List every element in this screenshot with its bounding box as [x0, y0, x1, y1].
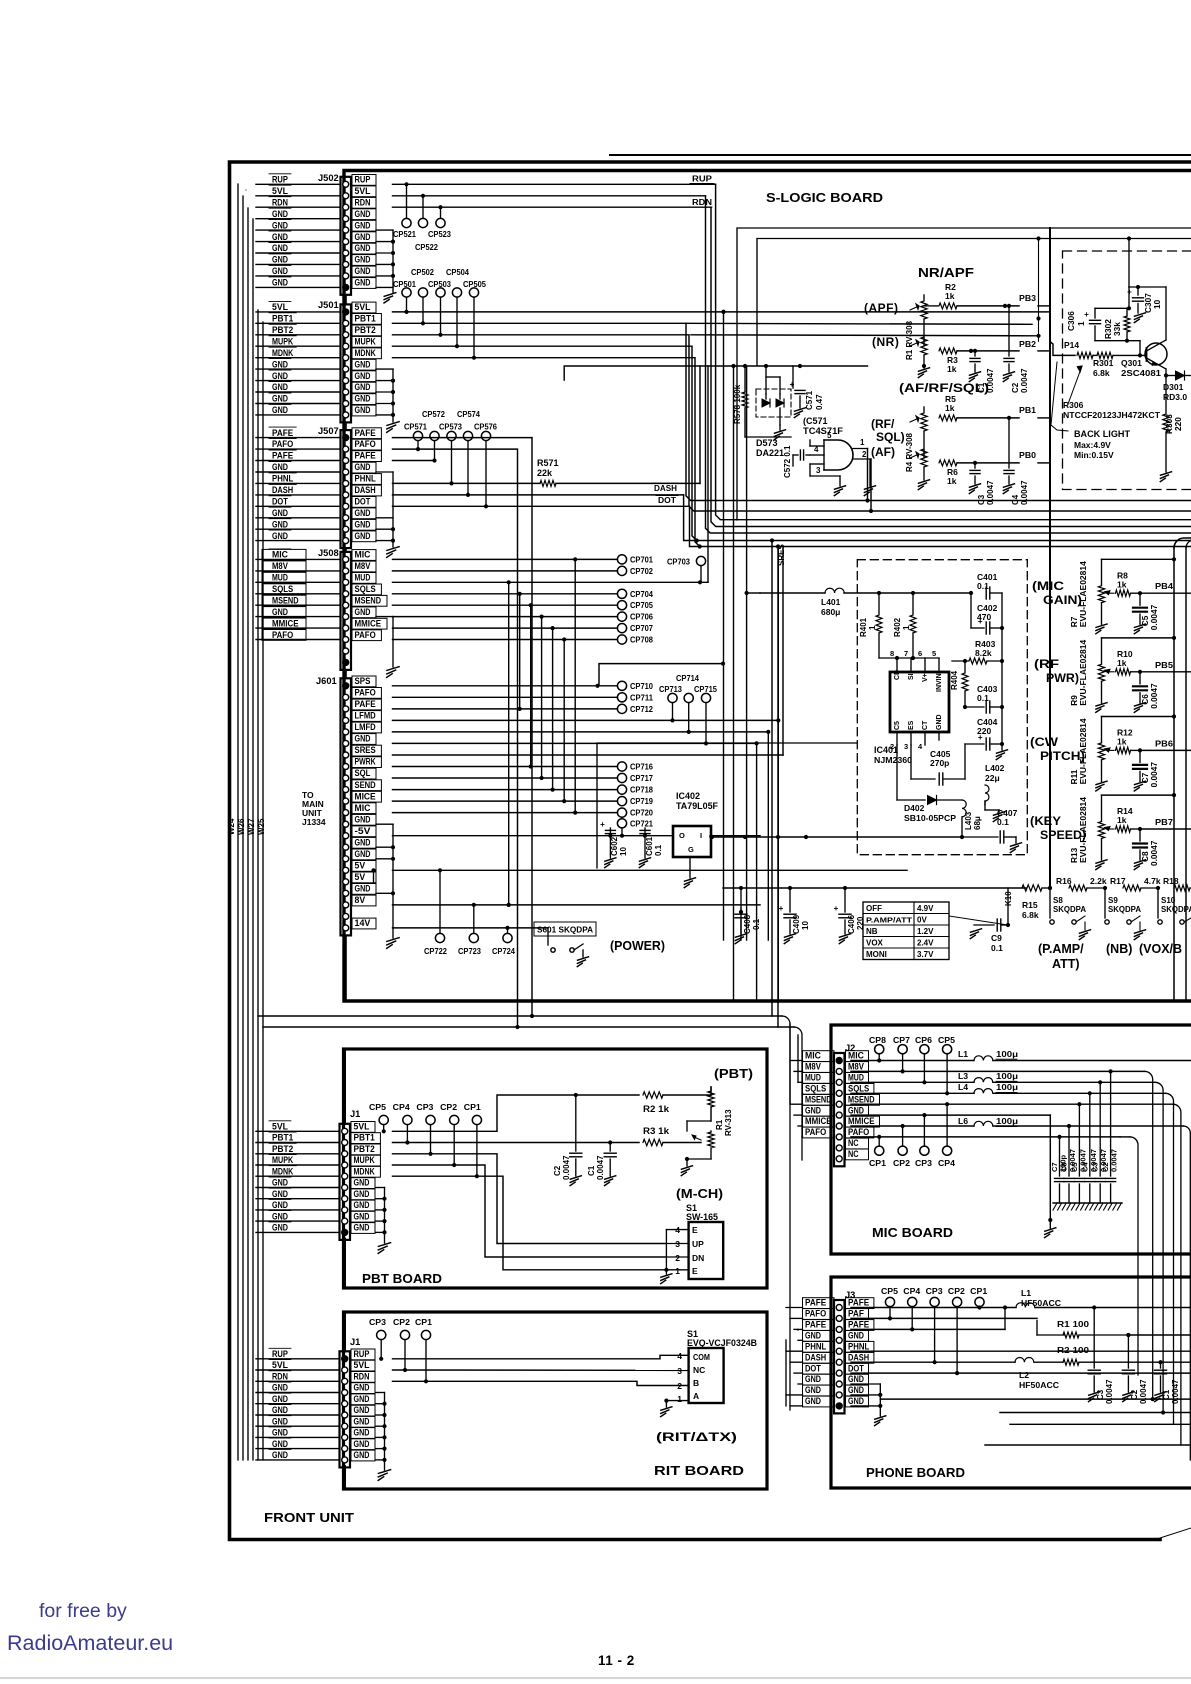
wire DASH [393, 495, 1191, 1016]
svg-text:GND: GND [354, 1200, 370, 1210]
D301 label [1163, 382, 1187, 402]
svg-text:(AF/RF/SQL): (AF/RF/SQL) [899, 381, 989, 395]
MIC testpoint CP6 [920, 1045, 929, 1085]
svg-text:GND: GND [848, 1374, 864, 1384]
wire top feed y366 [564, 364, 867, 380]
svg-text:+: + [1084, 310, 1089, 319]
gate pin numbers [814, 431, 867, 475]
svg-text:CP707: CP707 [630, 623, 653, 633]
switch S601 SKQDPA [534, 922, 596, 967]
wire MIC601 row [393, 812, 618, 814]
dashed box IC401 [857, 560, 1027, 855]
svg-text:CP719: CP719 [630, 796, 653, 806]
resistor R2 100 phone [1057, 1345, 1191, 1365]
svg-text:SW-165: SW-165 [686, 1212, 718, 1222]
svg-text:C1: C1 [587, 1165, 596, 1176]
svg-text:DASH: DASH [805, 1352, 826, 1362]
S1 SW-165 labels [686, 1203, 718, 1222]
wire L402 gnd [985, 802, 1005, 822]
svg-text:100μ: 100μ [996, 1082, 1018, 1092]
svg-text:GND: GND [272, 1200, 288, 1210]
wire C404 ground [1001, 744, 1003, 750]
svg-text:PAFO: PAFO [805, 1127, 826, 1137]
svg-text:W24: W24 [227, 818, 236, 835]
svg-text:GND: GND [354, 1428, 370, 1438]
testpoint PBT CP2 [450, 1115, 459, 1167]
wire RUP to S1 [393, 1355, 689, 1359]
connector J508 [256, 549, 387, 670]
resistor R2 1k PBT [643, 1092, 711, 1114]
svg-text:0.0047: 0.0047 [1149, 840, 1159, 866]
wire KEY row [710, 835, 962, 839]
svg-text:R11: R11 [1069, 769, 1079, 784]
grid vertical x541.6 [540, 615, 544, 781]
inductor L1 phone [851, 1303, 1191, 1310]
svg-text:PAF: PAF [848, 1309, 864, 1319]
svg-text:W26: W26 [237, 818, 246, 835]
J601 label [316, 676, 337, 686]
svg-text:CP715: CP715 [694, 684, 717, 694]
switch S9 SKQDPA [1105, 888, 1146, 940]
svg-text:J1: J1 [350, 1109, 360, 1119]
DOT tag [656, 495, 678, 505]
svg-text:I: I [700, 831, 702, 840]
svg-text:EVQ-VCJF0324B: EVQ-VCJF0324B [687, 1338, 757, 1348]
testpoint CP718 [617, 785, 653, 795]
wire MICE row [393, 800, 618, 802]
testpoint CP715 [701, 693, 710, 745]
svg-text:1k: 1k [1117, 579, 1127, 589]
svg-text:S8: S8 [1053, 896, 1063, 905]
svg-text:0.0047: 0.0047 [1110, 1149, 1119, 1172]
svg-text:E: E [692, 1225, 698, 1235]
svg-text:+: + [600, 820, 605, 829]
svg-text:CP3: CP3 [915, 1158, 932, 1168]
RIT board outline [344, 1312, 768, 1489]
svg-text:NB: NB [866, 927, 878, 936]
inductor L401 680u [760, 588, 971, 617]
svg-text:GND: GND [355, 371, 371, 381]
svg-text:L402: L402 [985, 763, 1005, 773]
svg-text:GND: GND [848, 1331, 864, 1341]
svg-text:(NB): (NB) [1106, 942, 1132, 956]
grid vertical x575.2 [573, 557, 577, 814]
svg-text:10: 10 [801, 921, 810, 930]
J502 gnd bundle [376, 230, 396, 303]
J502 label [318, 173, 339, 183]
capacitor C1 phone [1155, 1362, 1181, 1404]
APF bracket label [864, 301, 899, 315]
RIT bracket label [656, 1430, 737, 1444]
svg-text:GND: GND [355, 607, 371, 617]
stub CP572 [432, 441, 436, 463]
wire S1 pin1 gnd [661, 1399, 689, 1417]
svg-text:3.7V: 3.7V [917, 950, 934, 959]
svg-text:5VL: 5VL [272, 1122, 288, 1132]
resistor R571 22k [540, 480, 700, 486]
testpoint CP711 [617, 692, 653, 702]
W24 label [227, 818, 236, 835]
svg-text:C571: C571 [805, 390, 814, 410]
svg-text:S601 SKQDPA: S601 SKQDPA [537, 925, 593, 935]
svg-text:L4: L4 [958, 1082, 968, 1092]
switch S10 SKQDPA [1158, 888, 1191, 924]
bus vertical x1129 [1128, 239, 1130, 288]
node RDN tag [690, 197, 712, 207]
svg-text:10: 10 [619, 847, 628, 856]
bus vertical x768.3 [767, 732, 769, 940]
svg-text:0.1: 0.1 [977, 693, 989, 703]
svg-text:GND: GND [355, 232, 371, 242]
capacitor C9 0.1 [970, 919, 1010, 953]
svg-text:(AF): (AF) [871, 445, 895, 459]
svg-text:J601: J601 [316, 676, 337, 686]
RF PWR bracket [1034, 659, 1079, 685]
svg-text:PHNL: PHNL [355, 474, 377, 484]
capacitor C406 220 [834, 888, 865, 944]
svg-text:R17: R17 [1110, 876, 1126, 886]
wire PBT PBT1 [393, 1140, 640, 1144]
svg-text:R4 RV-308: R4 RV-308 [905, 432, 914, 472]
capacitor bank C7 C8 C5 C4 C3 C2 [1050, 1071, 1119, 1203]
wire PWRK row [393, 766, 618, 768]
svg-text:GND: GND [355, 837, 371, 847]
svg-text:DN: DN [692, 1253, 704, 1263]
R306 NTC label [1063, 400, 1161, 420]
svg-text:100μ: 100μ [996, 1116, 1018, 1126]
P AMP ATT bracket [1038, 942, 1084, 971]
S-LOGIC board outline [344, 171, 1191, 1002]
testpoint PBT CP1 [472, 1115, 481, 1178]
bus vertical x756.6 [756, 743, 758, 1001]
D573 DA221 label [756, 438, 784, 458]
svg-text:(RF: (RF [1034, 659, 1059, 671]
svg-text:PAFO: PAFO [848, 1127, 869, 1137]
svg-text:R13: R13 [1069, 847, 1079, 863]
NR APF label [918, 265, 974, 280]
svg-text:+: + [978, 617, 983, 626]
wire RDN vertical drop [711, 207, 1191, 526]
inductor L3 100u [851, 1071, 1163, 1413]
svg-text:GND: GND [355, 209, 371, 219]
watermark for free by [39, 1600, 127, 1622]
svg-text:CP571: CP571 [404, 422, 427, 432]
resistor R302 33k [1103, 308, 1130, 340]
svg-text:DASH: DASH [355, 485, 376, 495]
svg-text:MUPK: MUPK [272, 336, 293, 346]
svg-text:-5V: -5V [355, 826, 372, 836]
svg-text:MUD: MUD [848, 1073, 864, 1083]
svg-text:R571: R571 [537, 458, 559, 468]
svg-text:ATT): ATT) [1052, 957, 1080, 971]
svg-text:MIC: MIC [355, 803, 371, 813]
svg-text:GND: GND [354, 1178, 370, 1188]
PBT BOARD label [362, 1272, 442, 1286]
svg-text:PBT1: PBT1 [355, 314, 376, 324]
wire SRES row [393, 548, 784, 755]
wire P14 row [1050, 342, 1075, 356]
svg-text:PB3: PB3 [1019, 293, 1036, 303]
svg-text:R1: R1 [715, 1119, 724, 1130]
svg-text:PBT2: PBT2 [355, 325, 376, 335]
svg-text:SKQDPA: SKQDPA [1161, 905, 1191, 914]
node RUP tag [690, 174, 714, 184]
resistor R1 100 phone [1037, 1319, 1191, 1338]
testpoint CP521 [402, 184, 411, 227]
svg-text:CP1: CP1 [415, 1317, 432, 1327]
svg-text:GND: GND [272, 1428, 288, 1438]
testpoint RIT CP2 [400, 1330, 409, 1372]
CP522 label [415, 242, 438, 252]
MIC board outline [831, 1025, 1191, 1254]
switch S1 EVQ-VCJF0324B [689, 1348, 724, 1403]
wire PAFE2 stub [393, 460, 435, 462]
inductor L4 100u [851, 1082, 1174, 1424]
wire K10 vertical [1007, 888, 1009, 925]
feed vertical phone bundle [772, 547, 778, 1319]
svg-text:2: 2 [862, 450, 867, 459]
svg-text:11 - 2: 11 - 2 [598, 1653, 635, 1668]
svg-text:5VL: 5VL [355, 302, 371, 312]
svg-text:PBT1: PBT1 [272, 314, 293, 324]
svg-text:(POWER): (POWER) [610, 938, 665, 953]
svg-text:MUPK: MUPK [354, 1155, 375, 1165]
svg-text:MMICE: MMICE [355, 618, 382, 628]
svg-text:CP718: CP718 [630, 785, 653, 795]
BACK LIGHT label [1074, 429, 1130, 460]
testpoint RIT CP1 [421, 1330, 430, 1383]
svg-text:+: + [834, 904, 839, 913]
svg-text:RUP: RUP [272, 1349, 288, 1359]
wire R1 top join [710, 1084, 712, 1095]
svg-text:GND: GND [272, 1211, 288, 1221]
svg-text:R9: R9 [1069, 695, 1079, 706]
right verticals to phone [1151, 1397, 1166, 1415]
resistor R5 1k [924, 394, 1019, 421]
svg-text:MIC: MIC [272, 550, 288, 560]
svg-text:CP522: CP522 [415, 242, 438, 252]
svg-text:GND: GND [272, 519, 288, 529]
svg-text:5VL: 5VL [272, 302, 288, 312]
J2 feed stubs [790, 1061, 803, 1137]
resistor R16 2.2k [1056, 876, 1107, 891]
svg-text:V+: V+ [922, 673, 929, 682]
svg-text:DOT: DOT [848, 1363, 864, 1373]
svg-text:CP501: CP501 [393, 279, 416, 289]
W26 label [237, 818, 246, 835]
wire MIC row [393, 558, 618, 560]
wire SQLS row [393, 593, 618, 595]
testpoint CP721 [617, 818, 653, 838]
svg-text:CP705: CP705 [630, 600, 653, 610]
wire L402 top [984, 744, 986, 785]
svg-text:CP702: CP702 [630, 566, 653, 576]
svg-text:TA79L05F: TA79L05F [676, 801, 718, 811]
PHONE BOARD label [866, 1466, 965, 1480]
wire DOT [393, 506, 1191, 1027]
svg-text:R18: R18 [1163, 876, 1179, 886]
CP571 CP573 CP576 labels [404, 422, 497, 432]
ic pin numbers top [890, 649, 936, 658]
svg-text:R404: R404 [950, 670, 959, 690]
S1 EVQ labels [687, 1329, 757, 1348]
svg-text:ES: ES [908, 720, 915, 730]
MIC CP1-4 labels [869, 1158, 955, 1168]
svg-text:G: G [688, 845, 694, 854]
svg-text:R2 100: R2 100 [1057, 1345, 1089, 1355]
svg-text:GND: GND [272, 382, 288, 392]
svg-text:PAFO: PAFO [355, 688, 376, 698]
svg-text:R1 100: R1 100 [1057, 1319, 1089, 1329]
svg-text:GND: GND [272, 371, 288, 381]
svg-text:PWRK: PWRK [355, 757, 376, 767]
svg-text:M8V: M8V [355, 561, 372, 571]
svg-text:PBT BOARD: PBT BOARD [362, 1272, 442, 1286]
svg-text:CP1: CP1 [464, 1102, 481, 1112]
svg-text:GND: GND [272, 220, 288, 230]
S1 EVQ pin numbers [677, 1351, 682, 1404]
svg-text:PAFO: PAFO [355, 439, 376, 449]
PBT bracket label [714, 1066, 753, 1081]
wire PBT1 J501 [393, 316, 1191, 500]
svg-text:DOT: DOT [355, 497, 371, 507]
svg-text:GND: GND [805, 1385, 821, 1395]
svg-text:PAFO: PAFO [272, 630, 293, 640]
svg-text:GAIN): GAIN) [1043, 595, 1082, 607]
J507 gnd bundle [376, 472, 399, 557]
svg-text:R301: R301 [1093, 358, 1114, 368]
svg-text:S10: S10 [1161, 896, 1176, 905]
dashed box D573 [756, 389, 791, 417]
phone CP labels [881, 1286, 987, 1296]
svg-text:GND: GND [355, 394, 371, 404]
svg-text:CP723: CP723 [458, 946, 481, 956]
svg-text:C2: C2 [1011, 382, 1020, 393]
CW PITCH bracket [1030, 737, 1085, 763]
capacitor C402 470 [969, 591, 1004, 634]
svg-text:0.0047: 0.0047 [596, 1155, 605, 1180]
connector J502 [256, 174, 376, 295]
wire APF feed [700, 340, 926, 368]
svg-text:CD: CD [894, 670, 901, 680]
testpoint CP704 [617, 589, 653, 599]
svg-text:GND: GND [272, 1189, 288, 1199]
svg-text:+: + [1127, 288, 1132, 297]
resistor R404 [950, 661, 968, 706]
wire table pointer [949, 916, 1008, 925]
testpoint CP710 [617, 681, 653, 691]
potentiometer R13 block KEY SPEED [1069, 793, 1191, 870]
svg-text:PWR): PWR) [1046, 673, 1079, 685]
wire PAFO drop [393, 449, 518, 1027]
testpoint CP706 [617, 612, 653, 622]
capacitor C403 0.1 [963, 684, 1004, 713]
grid vertical x552.6 [551, 626, 555, 792]
potentiometer R9 block RF PWR [1069, 636, 1191, 713]
connector J1 PBT [256, 1121, 380, 1240]
svg-text:RV-313: RV-313 [724, 1109, 733, 1136]
svg-text:NR/APF: NR/APF [918, 265, 974, 280]
svg-text:+: + [779, 904, 784, 913]
svg-text:220: 220 [1173, 417, 1183, 431]
svg-text:0.1: 0.1 [997, 817, 1009, 827]
svg-text:SQLS: SQLS [272, 584, 293, 594]
capacitor C571 0.47 [790, 366, 824, 418]
svg-text:1k: 1k [947, 364, 957, 374]
svg-text:CP3: CP3 [416, 1102, 433, 1112]
svg-text:C2: C2 [553, 1165, 562, 1176]
voltage table [863, 902, 949, 960]
svg-text:J507: J507 [318, 426, 339, 436]
svg-text:R1 RV-308: R1 RV-308 [905, 320, 914, 360]
phone CP stubs [888, 1305, 982, 1375]
svg-text:DOT: DOT [805, 1363, 821, 1373]
testpoint PBT CP4 [403, 1115, 412, 1144]
svg-text:R3 1k: R3 1k [643, 1126, 670, 1136]
svg-text:CP505: CP505 [463, 279, 486, 289]
svg-text:CP708: CP708 [630, 635, 653, 645]
svg-text:J502: J502 [318, 173, 339, 183]
svg-text:CP704: CP704 [630, 589, 653, 599]
svg-text:MMICE: MMICE [272, 618, 299, 628]
inductor L403 68u [962, 800, 982, 837]
svg-text:CP724: CP724 [492, 946, 515, 956]
stub CP502 [421, 297, 425, 325]
J507 label [318, 426, 339, 436]
wire band 546 ext [690, 546, 1191, 548]
svg-text:22μ: 22μ [985, 773, 1000, 783]
svg-text:MSEND: MSEND [272, 595, 299, 605]
IC402 label [676, 791, 718, 811]
NR bracket label [872, 335, 899, 349]
wire power bus y888 [723, 886, 1026, 890]
svg-text:W27: W27 [247, 818, 256, 835]
Q301 labels [1121, 358, 1161, 378]
svg-text:CP7: CP7 [893, 1035, 910, 1045]
wire RUP vertical drop [716, 184, 1191, 519]
svg-text:(P.AMP/: (P.AMP/ [1038, 942, 1084, 956]
svg-text:Max:4.9V: Max:4.9V [1074, 440, 1111, 450]
svg-text:L403: L403 [964, 811, 973, 830]
svg-text:1k: 1k [945, 403, 955, 413]
resistor R6 1k [924, 460, 1019, 486]
testpoint PBT CP5 [379, 1115, 388, 1133]
wire y239 dots [1036, 236, 1131, 240]
svg-text:GND: GND [272, 394, 288, 404]
svg-text:0.0047: 0.0047 [1139, 1379, 1148, 1404]
svg-text:J2: J2 [845, 1043, 855, 1053]
svg-text:J508: J508 [318, 548, 339, 558]
bus vertical x723.5 [723, 312, 725, 940]
stub CP504 [455, 297, 459, 348]
testpoint PBT CP3 [426, 1115, 435, 1156]
wire 14V row [393, 926, 549, 930]
wire IC top pins [879, 656, 939, 672]
svg-text:MSEND: MSEND [355, 595, 382, 605]
svg-text:CP2: CP2 [948, 1286, 965, 1296]
R1 RV-313 label [715, 1109, 733, 1136]
wire MUPK J501 [393, 346, 699, 542]
svg-text:100μ: 100μ [996, 1071, 1018, 1081]
svg-text:FRONT UNIT: FRONT UNIT [264, 1511, 354, 1525]
wire PAFO row 508 [393, 639, 618, 641]
wire PHNL up [699, 366, 701, 483]
C306 R302 box wires [1095, 287, 1140, 343]
svg-text:EVU-FLAE02814: EVU-FLAE02814 [1079, 796, 1088, 863]
svg-text:MSEND: MSEND [805, 1094, 832, 1104]
wire L401 from bus [745, 591, 761, 595]
svg-text:RDN: RDN [272, 1372, 288, 1382]
